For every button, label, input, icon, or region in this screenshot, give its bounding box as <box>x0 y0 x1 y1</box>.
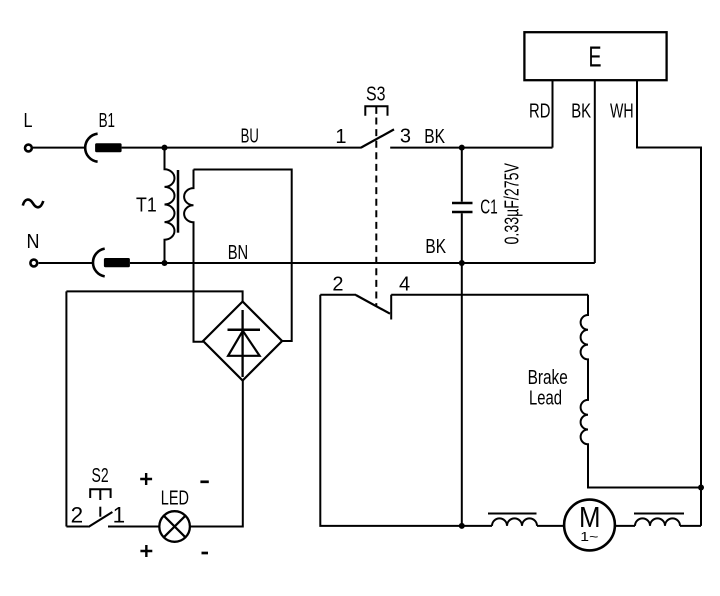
capacitor C1 top lead <box>461 148 463 202</box>
svg-text:1~: 1~ <box>580 529 598 544</box>
motor run inductor left <box>492 518 537 525</box>
svg-text:S3: S3 <box>366 83 386 105</box>
junction brake lead / right rail <box>698 485 704 491</box>
switch S3 contact 4 tick <box>390 295 392 320</box>
wire S3 contact 4 to brake lead <box>391 294 588 296</box>
bridge diode cathode bar <box>228 328 261 331</box>
AC symbol ~ <box>23 200 44 208</box>
svg-text:BK: BK <box>425 236 446 258</box>
wire to S2 contact 2 <box>66 526 88 528</box>
switch S2 blade <box>88 512 112 527</box>
svg-text:BN: BN <box>228 242 249 264</box>
svg-text:2: 2 <box>332 274 343 296</box>
motor run inductor right core <box>634 513 684 515</box>
svg-text:0.33µF/275V: 0.33µF/275V <box>502 163 524 245</box>
svg-text:1: 1 <box>113 503 126 528</box>
wire inductor to right rail <box>680 525 701 527</box>
svg-text:LED: LED <box>161 488 189 510</box>
LED lamp circle <box>159 511 190 542</box>
wire S3 contact 3 to RD (BK net) <box>390 147 552 149</box>
svg-text:4: 4 <box>399 274 410 296</box>
wire N to E BK pin (BN net) <box>39 262 595 264</box>
junction C1 bottom / motor wire <box>459 523 465 529</box>
svg-text:B1: B1 <box>99 110 115 132</box>
E pin WH lead to right rail <box>637 80 701 526</box>
ferrite bead B1 body <box>95 143 122 152</box>
bridge diode lead line <box>241 310 243 377</box>
svg-text:Brake: Brake <box>528 367 568 389</box>
wire LED to bridge - output <box>190 381 243 527</box>
switch S2 actuator bracket <box>90 489 110 500</box>
transformer T1 secondary winding <box>184 170 203 342</box>
polarity + bottom <box>140 545 152 557</box>
ferrite bead B1 arc <box>85 134 97 162</box>
wire T1 secondary top to bridge right <box>194 170 292 342</box>
E pin BK lead <box>594 80 596 263</box>
ferrite bead B2 body <box>104 258 130 267</box>
svg-text:BK: BK <box>424 126 445 148</box>
svg-text:BK: BK <box>571 101 591 123</box>
junction BK/C1 top <box>459 145 465 151</box>
junction N/T1 <box>162 260 168 266</box>
svg-text:RD: RD <box>529 101 550 123</box>
wire S2 contact 1 to LED <box>108 526 159 528</box>
wire LED loop left side <box>65 291 67 526</box>
transformer T1 primary winding <box>165 148 175 263</box>
E pin RD lead <box>552 80 554 147</box>
svg-text:1: 1 <box>335 126 346 148</box>
svg-text:S2: S2 <box>92 465 109 487</box>
motor run inductor left core <box>488 513 537 515</box>
polarity - bottom <box>202 552 209 555</box>
switch S2 actuator dash <box>99 507 101 517</box>
LED lamp cross <box>164 516 185 537</box>
svg-text:L: L <box>24 110 33 132</box>
switch S3 pole b blade <box>356 295 390 314</box>
terminal N <box>30 260 37 267</box>
ferrite bead B2 arc <box>93 249 105 277</box>
svg-text:WH: WH <box>610 101 634 123</box>
box E <box>524 32 666 80</box>
switch S3 gang link (dashed) <box>375 118 377 306</box>
wire bridge + output to LED loop top <box>66 291 242 301</box>
wire S3 contact 2 down to motor bottom wire <box>320 295 492 526</box>
svg-text:N: N <box>27 231 40 253</box>
bridge diode triangle <box>228 331 260 356</box>
wire motor to right inductor <box>615 525 635 527</box>
wire L to S3 contact 1 (BU net) <box>33 147 362 149</box>
motor M1 circle <box>564 500 615 551</box>
svg-text:2: 2 <box>71 503 84 528</box>
svg-text:E: E <box>589 42 602 74</box>
capacitor C1 bottom plate <box>452 211 473 214</box>
switch S3 pole a blade <box>361 129 394 147</box>
junction L/T1 <box>162 145 168 151</box>
polarity + top <box>140 473 152 485</box>
svg-text:Lead: Lead <box>529 388 562 410</box>
junction BN/C1 <box>459 260 465 266</box>
wire S3 contact 2 stub <box>320 294 356 296</box>
svg-text:T1: T1 <box>136 195 157 217</box>
svg-text:3: 3 <box>400 126 411 148</box>
capacitor C1 top plate <box>452 202 473 205</box>
polarity - top <box>200 480 208 483</box>
transformer T1 core <box>177 170 180 233</box>
motor run inductor right <box>635 518 680 525</box>
wire inductor to motor <box>537 525 564 527</box>
bridge rectifier diamond <box>203 302 282 381</box>
svg-text:C1: C1 <box>480 197 498 219</box>
brake lead coil <box>581 295 701 488</box>
svg-text:BU: BU <box>241 125 259 148</box>
terminal L <box>25 145 32 152</box>
capacitor C1 bottom lead down to motor wire <box>461 213 463 526</box>
switch S3 actuator bracket <box>365 106 387 116</box>
